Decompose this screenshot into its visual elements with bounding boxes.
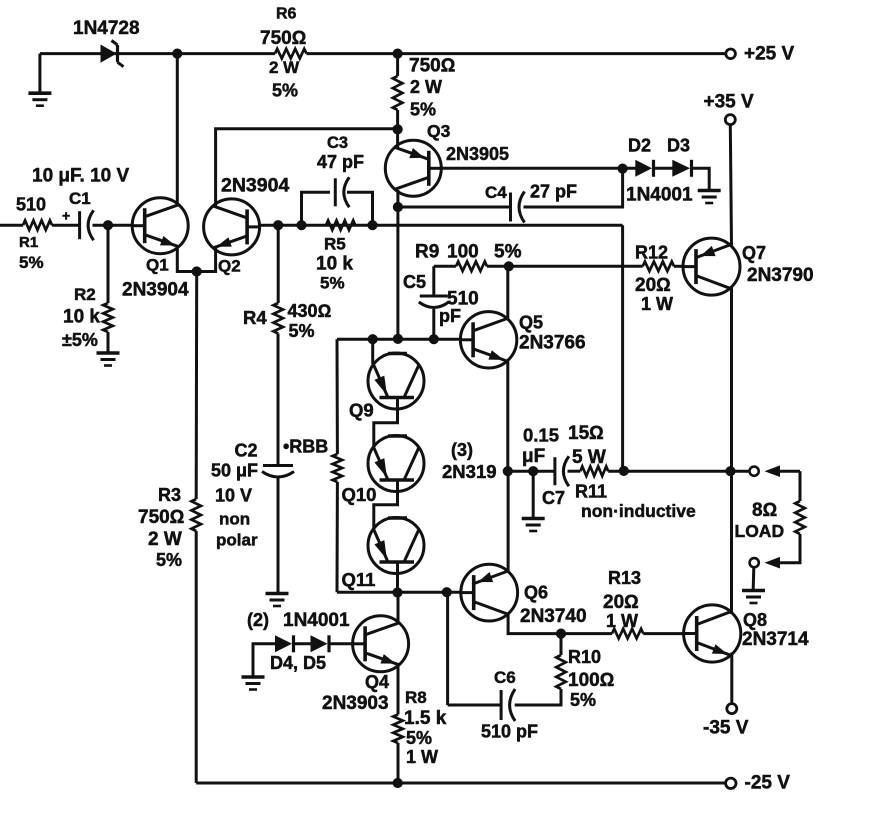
label R3 2W [148, 529, 182, 550]
arrow to output [765, 465, 801, 477]
label R8 value [404, 708, 447, 729]
svg-text:Q7: Q7 [742, 243, 766, 263]
wire R13-Q8 [643, 632, 683, 635]
svg-text:+35 V: +35 V [704, 92, 755, 113]
svg-text:10 μF. 10 V: 10 μF. 10 V [32, 166, 130, 187]
transistor Q2 [204, 199, 260, 255]
transistor Q7 [683, 238, 740, 295]
label R12 [635, 243, 668, 263]
label Q4 type [322, 693, 389, 714]
label C5 value [447, 289, 479, 310]
ground (R2) [97, 353, 120, 366]
diode D5 [311, 635, 330, 652]
svg-text:Q11: Q11 [342, 569, 376, 590]
label R1 [19, 234, 38, 251]
wire Q5 emitter [506, 361, 509, 471]
wire Q5 collector [506, 266, 509, 318]
wire Q4 emitter [397, 666, 400, 715]
wire Q3 collector lead [396, 190, 399, 339]
node R9-Q5 [504, 262, 513, 271]
wire Q7-Q8 collectors [730, 288, 733, 615]
svg-text:2N3903: 2N3903 [322, 693, 389, 714]
wire Q6 base line [337, 591, 462, 594]
svg-text:10 V: 10 V [215, 486, 252, 506]
wire output line [508, 470, 750, 473]
svg-text:100: 100 [447, 242, 479, 263]
wire 750ohm leads [396, 54, 399, 130]
label C6 value [481, 722, 538, 742]
label Q5 [519, 313, 543, 333]
ground (load) [742, 591, 765, 604]
resistor R6 [275, 49, 307, 59]
svg-text:1 W: 1 W [641, 294, 673, 314]
svg-text:5%: 5% [406, 728, 432, 748]
wire D5-Q4 [330, 642, 353, 645]
label 1N4728 [73, 18, 140, 39]
wire D4-D5 [294, 642, 311, 645]
capacitor C4 [511, 192, 525, 223]
capacitor C2 [262, 466, 294, 478]
svg-text:R3: R3 [158, 485, 181, 505]
wire Q9 emitter lead [373, 339, 374, 365]
transistor Q10 [368, 436, 424, 492]
label R11 value [568, 423, 604, 444]
svg-text:510: 510 [16, 195, 46, 215]
label Q2 [218, 257, 241, 276]
label Q5 type [519, 333, 586, 354]
diode D4 [275, 635, 294, 652]
wire terminal-ground [752, 567, 756, 589]
capacitor C7 [555, 456, 569, 486]
svg-text:5%: 5% [156, 550, 182, 570]
label Q6 type [520, 606, 587, 627]
svg-text:R2: R2 [74, 285, 96, 304]
label C7 value1 [523, 425, 559, 446]
svg-text:C5: C5 [403, 272, 426, 292]
svg-text:2N3766: 2N3766 [519, 333, 586, 354]
svg-text:μF: μF [522, 446, 545, 467]
capacitor C6 wire [448, 704, 502, 707]
svg-text:27 pF: 27 pF [530, 182, 577, 202]
svg-text:5 W: 5 W [572, 447, 606, 468]
svg-text:750Ω: 750Ω [138, 507, 184, 528]
ground (C2) [266, 594, 289, 607]
transistor Q3 [385, 140, 441, 196]
svg-text:Q2: Q2 [218, 257, 241, 276]
capacitor C1 [80, 210, 94, 240]
label RBB [283, 437, 328, 457]
wire Q10 base jog [374, 480, 398, 530]
label 750 5pct [410, 100, 436, 120]
label Q7 type [747, 265, 814, 286]
svg-text:1N4728: 1N4728 [73, 18, 140, 39]
label R13 W [606, 611, 638, 631]
resistor R13 [612, 629, 643, 639]
label R6 2W [269, 58, 300, 77]
svg-text:10 k: 10 k [63, 307, 100, 328]
ground (top-left) [28, 54, 51, 106]
svg-text:20Ω: 20Ω [635, 275, 671, 296]
label -25 V [745, 773, 791, 794]
svg-text:1 W: 1 W [406, 747, 438, 767]
svg-text:•RBB: •RBB [283, 437, 328, 457]
node C4 tap [393, 202, 402, 211]
label C3 value [317, 152, 364, 172]
label non-inductive [581, 501, 696, 521]
svg-text:750Ω: 750Ω [260, 28, 306, 49]
terminal -35V [727, 704, 737, 714]
svg-text:5%: 5% [320, 274, 345, 293]
node D2 junction [618, 164, 627, 173]
label R6 value [260, 28, 306, 49]
label R9 5pct [494, 242, 522, 263]
resistor R8 [393, 715, 403, 744]
svg-text:+25 V: +25 V [744, 44, 795, 65]
terminal output [750, 467, 759, 476]
transistor Q9 [368, 353, 424, 409]
label Q1 type [122, 280, 189, 301]
label R3 [158, 485, 181, 505]
svg-text:D4, D5: D4, D5 [270, 653, 326, 673]
wire Q11 base lead [396, 562, 399, 592]
wire D4-ground [253, 644, 275, 676]
wire Q4 collector [397, 593, 400, 623]
label Q7 [742, 243, 766, 263]
node rail-Q1 [173, 49, 182, 58]
svg-text:10 k: 10 k [316, 254, 353, 275]
svg-text:Q4: Q4 [365, 672, 389, 692]
label R10 value [568, 670, 614, 691]
label 1N4001 bottom [283, 610, 350, 631]
label C7 [542, 488, 565, 508]
label R3 value [138, 507, 184, 528]
svg-text:non: non [219, 510, 250, 529]
wire C3 loop [302, 192, 373, 225]
label R11 W [572, 447, 606, 468]
svg-text:Q5: Q5 [519, 313, 543, 333]
svg-text:50 μF: 50 μF [211, 461, 258, 481]
wire R9 left [432, 309, 435, 339]
resistor 8ohm LOAD [795, 501, 805, 534]
wire Q6 collector [508, 613, 612, 634]
svg-text:C4: C4 [485, 183, 507, 202]
terminal +25V [726, 49, 736, 59]
ground (C7) [522, 519, 545, 532]
capacitor C6 [501, 689, 515, 721]
svg-text:2N3790: 2N3790 [747, 265, 814, 286]
resistor 750ohm 2W [393, 76, 403, 110]
node feedback-output [619, 466, 628, 475]
label R9 value [447, 242, 479, 263]
svg-text:47 pF: 47 pF [317, 152, 364, 172]
wire C1-Q1 [93, 224, 133, 227]
svg-text:510 pF: 510 pF [481, 722, 538, 742]
label Q1 [146, 256, 169, 275]
wire Q1 emitter [177, 247, 215, 272]
wire Q2 collector [216, 129, 398, 206]
node C3 right [368, 221, 377, 230]
wire C4 right [524, 169, 623, 207]
label R13 value [603, 592, 639, 613]
wire Q8 emitter [730, 653, 733, 704]
terminal load ground [750, 558, 759, 567]
svg-text:1.5 k: 1.5 k [404, 708, 447, 729]
ground (D3) [698, 191, 721, 204]
wire Q9 base jog [374, 398, 398, 448]
svg-text:C7: C7 [542, 488, 565, 508]
wire R10 leads [515, 634, 561, 705]
wire input [0, 224, 23, 227]
label 750 value [409, 56, 455, 77]
node C5 tap [429, 335, 438, 344]
wire R12-Q7 [674, 265, 683, 268]
label R4 value [288, 301, 332, 321]
resistor R11 [580, 466, 608, 476]
label R1 5pct [19, 253, 44, 272]
svg-text:R6: R6 [276, 6, 297, 23]
wire C5 up [434, 266, 456, 296]
wire D3-ground [692, 168, 710, 189]
svg-text:R10: R10 [568, 647, 601, 667]
svg-text:1N4001: 1N4001 [283, 610, 350, 631]
capacitor C5 [419, 296, 449, 308]
svg-text:-25 V: -25 V [745, 773, 791, 794]
svg-text:R1: R1 [19, 234, 38, 251]
svg-text:R13: R13 [608, 568, 641, 588]
svg-text:±5%: ±5% [62, 330, 98, 350]
wire Q6 emitter [507, 471, 510, 572]
svg-text:C6: C6 [494, 668, 516, 687]
label R12 value [635, 275, 671, 296]
wire R2 leads [107, 225, 110, 351]
terminal -25V [726, 778, 736, 788]
svg-text:430Ω: 430Ω [288, 301, 332, 321]
svg-text:Q10: Q10 [342, 484, 377, 505]
transistor Q4 [353, 616, 409, 672]
svg-text:-35 V: -35 V [703, 718, 749, 739]
wire R8-rail [397, 743, 400, 783]
resistor RBB [333, 454, 343, 482]
svg-text:D2: D2 [628, 136, 651, 156]
wire R1-C1 [52, 224, 80, 227]
wire load top [799, 471, 802, 501]
svg-text:C3: C3 [327, 134, 348, 152]
label -35 V [703, 718, 749, 739]
svg-text:2N3740: 2N3740 [520, 606, 587, 627]
zener diode 1N4728 [101, 41, 124, 67]
svg-text:non·inductive: non·inductive [581, 501, 696, 521]
label R5 5pct [320, 274, 345, 293]
label C1 [69, 189, 91, 208]
svg-text:+: + [62, 208, 70, 224]
label C1 plus [62, 208, 70, 224]
ground (D4) [242, 677, 265, 690]
svg-text:100Ω: 100Ω [568, 670, 614, 691]
svg-text:750Ω: 750Ω [409, 56, 455, 77]
label Q8 type [742, 629, 809, 650]
label Q9 [349, 400, 374, 421]
label C4 [485, 183, 507, 202]
label Q4 [365, 672, 389, 692]
transistor Q5 [460, 312, 516, 368]
label C2 polar [216, 531, 258, 550]
svg-text:2 W: 2 W [410, 77, 442, 97]
wire R3 leads [195, 272, 199, 784]
label C6 [494, 668, 516, 687]
node Q3col-baseline [393, 334, 402, 343]
transistor Q11 [368, 518, 424, 574]
label Q11 [342, 569, 376, 590]
label C5 pF [439, 306, 461, 326]
wire feedback [621, 225, 624, 471]
transistor Q1 [132, 198, 188, 254]
node rail-750 [393, 49, 402, 58]
label C5 [403, 272, 426, 292]
wire C6-up [446, 592, 449, 705]
node output-collectors [726, 467, 735, 476]
node C7 ground tap [529, 467, 538, 476]
label Q10 [342, 484, 377, 505]
label R6 [276, 6, 297, 23]
svg-text:R8: R8 [405, 688, 427, 707]
label 1N4001 top [626, 185, 693, 206]
svg-text:2 W: 2 W [269, 58, 300, 77]
resistor R2 [103, 303, 113, 332]
svg-text:Q8: Q8 [743, 610, 767, 630]
svg-text:5%: 5% [410, 100, 436, 120]
resistor R5 [326, 220, 355, 230]
wire R9-R12 [487, 265, 643, 268]
node R4 tap [274, 221, 283, 230]
wire Q5 base line [337, 338, 460, 341]
label R10 [568, 647, 601, 667]
capacitor C3 [335, 177, 349, 207]
svg-text:1N4001: 1N4001 [626, 185, 693, 206]
wire -25V rail [196, 782, 725, 785]
label R12 W [641, 294, 673, 314]
label C3 [327, 134, 348, 152]
label R9 [415, 242, 439, 263]
label C4 value [530, 182, 577, 202]
svg-text:Q9: Q9 [349, 400, 374, 421]
svg-text:R4: R4 [243, 307, 267, 328]
label C2 non [219, 510, 250, 529]
resistor R12 [643, 262, 674, 272]
wire base line Q2 [260, 224, 623, 227]
svg-text:1 W: 1 W [606, 611, 638, 631]
label R2 tol [62, 330, 98, 350]
label C2 V [215, 486, 252, 506]
node Q11-Q4 [393, 588, 402, 597]
label R5 [324, 235, 346, 254]
resistor R3 [191, 499, 201, 531]
wire C4 left [398, 206, 511, 209]
label Q6 [524, 583, 548, 603]
label 750 2W [410, 77, 442, 97]
wire +25V rail [40, 52, 726, 55]
terminal +35V [725, 115, 735, 125]
svg-text:2 W: 2 W [148, 529, 182, 550]
label Q3 type [446, 144, 509, 164]
transistor Q6 [461, 564, 518, 621]
resistor R4 [273, 303, 283, 334]
svg-text:R11: R11 [575, 482, 607, 502]
resistor R9 [456, 262, 487, 272]
svg-text:5%: 5% [570, 690, 596, 710]
node R10 tap [556, 629, 565, 638]
transistor Q8 [684, 605, 741, 662]
wire +35V [730, 125, 731, 247]
wire load bottom [778, 534, 800, 563]
svg-text:2N3904: 2N3904 [122, 280, 189, 301]
svg-text:5%: 5% [19, 253, 44, 272]
node input-R2 [103, 221, 112, 230]
label D2 [628, 136, 651, 156]
label R4 5pct [289, 321, 315, 341]
label +35 V [704, 92, 755, 113]
svg-text:2N319: 2N319 [442, 461, 497, 482]
label R2 value [63, 307, 100, 328]
label R8 W [406, 747, 438, 767]
label R4 [243, 307, 267, 328]
svg-text:(2): (2) [247, 610, 269, 630]
svg-text:Q3: Q3 [427, 121, 451, 141]
svg-text:20Ω: 20Ω [603, 592, 639, 613]
label R8 [405, 688, 427, 707]
label (2) [247, 610, 269, 630]
svg-text:Q1: Q1 [146, 256, 169, 275]
svg-text:(3): (3) [451, 440, 473, 460]
label R3 5pct [156, 550, 182, 570]
diode D2 [635, 160, 653, 177]
label LOAD [735, 521, 785, 541]
arrow to lower terminal [765, 557, 781, 569]
label R5 value [316, 254, 353, 275]
node C3 left [297, 221, 306, 230]
wire Q3 base line [442, 167, 673, 170]
svg-text:D3: D3 [667, 136, 690, 156]
label (3) [451, 440, 473, 460]
node 750-Q2collector [393, 125, 402, 134]
label C2 value [211, 461, 258, 481]
wire Q1 collector [176, 54, 179, 205]
svg-text:Q6: Q6 [524, 583, 548, 603]
svg-text:LOAD: LOAD [735, 521, 785, 541]
svg-text:5%: 5% [272, 81, 298, 101]
label Q2 type [221, 175, 289, 197]
resistor R1 [23, 220, 52, 230]
wire C7 ground lead [532, 471, 535, 517]
label C7 uF [522, 446, 545, 467]
label R2 [74, 285, 96, 304]
resistor R10 [556, 655, 566, 689]
svg-text:C1: C1 [69, 189, 91, 208]
svg-text:5%: 5% [494, 242, 522, 263]
node emitters-R3 [192, 267, 201, 276]
node C6 tap [442, 588, 451, 597]
diode D3 [672, 160, 691, 177]
svg-text:R9: R9 [415, 242, 439, 263]
label R10 5pct [570, 690, 596, 710]
label Q8 [743, 610, 767, 630]
label R11 [575, 482, 607, 502]
label R8 5pct [406, 728, 432, 748]
node R8-rail [393, 778, 402, 787]
svg-text:2N3904: 2N3904 [221, 175, 289, 197]
label Q3 [427, 121, 451, 141]
svg-text:2N3905: 2N3905 [446, 144, 509, 164]
svg-text:R5: R5 [324, 235, 346, 254]
